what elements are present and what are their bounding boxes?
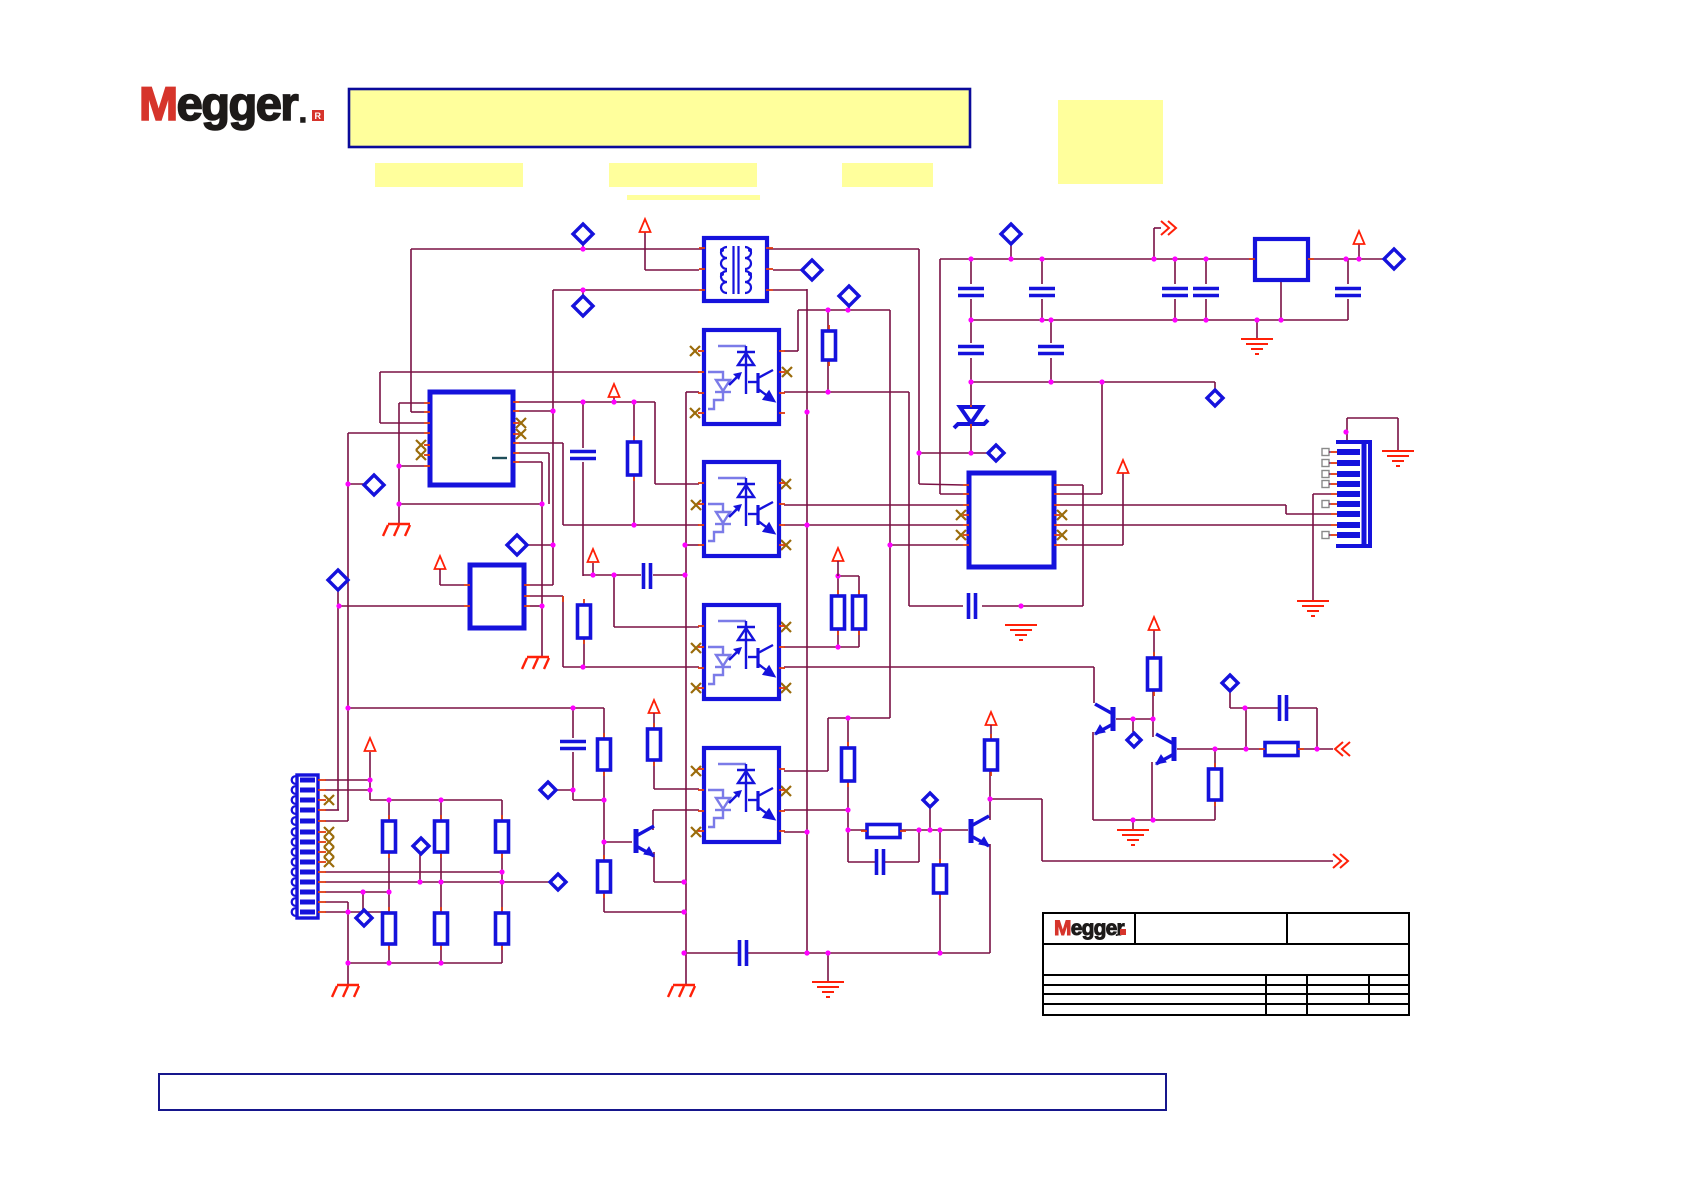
wire opto4 r3 (784, 809, 848, 811)
junction at 363,892 (360, 889, 365, 894)
port P9 (1384, 249, 1404, 269)
wire y718 (828, 717, 890, 719)
svg-text:.: . (299, 97, 307, 128)
ground slant 399 (383, 524, 410, 536)
port P13 (540, 782, 556, 798)
wire reg out (1308, 258, 1386, 260)
ground bar 1313 (1297, 601, 1329, 616)
power arrow Q5 (986, 712, 997, 725)
subtitle strip (627, 195, 760, 200)
wire Q3 emitter (653, 852, 655, 882)
junction at 1133,719 (1130, 716, 1135, 721)
junction at 1154,259 (1151, 256, 1156, 261)
wire IC3 r5 long (1060, 524, 1331, 526)
transistor Q2 (1156, 734, 1174, 764)
no-connect X at 696,832 (691, 827, 701, 837)
port P11 (1207, 390, 1223, 406)
svg-text:.: . (1115, 925, 1118, 939)
capacitor C5 (1162, 289, 1188, 296)
resistor R20 (867, 825, 900, 838)
junction at 348,963 (345, 960, 350, 965)
no-connect X at 786,791 (781, 786, 791, 796)
junction at 940,830 (937, 827, 942, 832)
capacitor C13 (877, 849, 884, 875)
no-connect X at 696,771 (691, 766, 701, 776)
wire rail 320 (971, 319, 1348, 321)
wire opto4 L2 (653, 760, 655, 789)
no-connect X at 329,800 (324, 795, 334, 805)
ground bar 1257 (1241, 339, 1273, 354)
wire diamond 583 top (582, 242, 584, 249)
junction at 940,953 (937, 950, 942, 955)
junction at 634,402 (631, 399, 636, 404)
ground bar 1398 (1382, 451, 1414, 466)
wire cap col 583 (582, 402, 584, 448)
wire IC3 r1 (1060, 484, 1083, 486)
junction at 1051,320 (1048, 317, 1053, 322)
junction at 919,830 (916, 827, 921, 832)
no-connect X at 521,423 (516, 418, 526, 428)
junction at 502,882 (499, 879, 504, 884)
wire rail 963 (348, 962, 502, 964)
transformer T1 (699, 238, 773, 301)
resistor R10 (388, 815, 390, 821)
junction at 838,647 (835, 644, 840, 649)
wire IC1 r7 (519, 461, 542, 463)
junction at 370,790 (367, 787, 372, 792)
wire J1 pin rows (325, 779, 370, 781)
junction at 828,953 (825, 950, 830, 955)
port P7 (839, 286, 859, 306)
wire y504 (399, 503, 542, 505)
wire IC2 L2 (339, 605, 464, 607)
junction at 583,402 (580, 399, 585, 404)
port P8 (1001, 224, 1021, 244)
junction at 634,525 (631, 522, 636, 527)
junction at 420,882 (417, 879, 422, 884)
wire IC1 r5 (519, 442, 563, 444)
power arrow 654 (649, 700, 660, 713)
junction at 1281,320 (1278, 317, 1283, 322)
capacitor C1 (570, 452, 596, 459)
title block (1043, 913, 1409, 1015)
wire x919 (918, 249, 920, 484)
junction at 583,249 (580, 246, 585, 251)
junction at 1153,820 (1150, 817, 1155, 822)
resistor R11 (440, 815, 442, 821)
wire transformer pin2 left (645, 269, 699, 271)
wire arrow J1 (369, 752, 371, 800)
no-connect X at 329,852 (324, 847, 334, 857)
wire y382 (971, 381, 1215, 383)
wire IC1 pin4 (348, 432, 424, 434)
wire cap col 1042 (1041, 259, 1043, 284)
resistor R4 (603, 733, 605, 739)
junction at 553,411 (550, 408, 555, 413)
note box top right (1058, 100, 1163, 184)
resistor R3 (583, 599, 585, 605)
junction at 339,606 (336, 603, 341, 608)
junction at 1246,749 (1243, 746, 1248, 751)
junction at 684,882 (681, 879, 686, 884)
no-connect X at 329,842 (324, 837, 334, 847)
wire cap col 1051 (1050, 320, 1052, 343)
power arrow IC3 (1118, 460, 1129, 473)
subtitle box 3 (842, 163, 933, 187)
junction at 1011,259 (1008, 256, 1013, 261)
wire IC1 r2 (519, 410, 553, 412)
resistor R6 (653, 723, 655, 729)
resistor R5 (603, 855, 605, 861)
wire y667 left (530, 595, 563, 597)
junction at 848,810 (845, 807, 850, 812)
wire top rail 259 (940, 258, 1255, 260)
wire arrow 614 (613, 397, 615, 402)
junction at 399,504 (396, 501, 401, 506)
wire transformer pin3 left (553, 289, 699, 291)
wire opto2 out 525 to IC3 (784, 524, 963, 526)
transistor Q3 (636, 826, 654, 856)
junction at 593,575 (590, 572, 595, 577)
wire Q5 collector (989, 770, 991, 820)
wire diamond 364 (362, 892, 364, 910)
wire IC3 p7 from bus (890, 544, 963, 546)
wire y953 row (686, 952, 739, 954)
wire opto4 r4 (784, 831, 807, 833)
wire IC2 L1 (440, 584, 464, 586)
wire y575 node (583, 574, 641, 576)
wire resistor col 441 (440, 800, 442, 821)
wire IC1 pin2 (410, 249, 412, 412)
wire port P3 stub (348, 483, 365, 485)
Megger logo (139, 77, 324, 130)
wire R1215 (1214, 749, 1216, 769)
junction at 828,392 (825, 389, 830, 394)
junction at 1215,749 (1212, 746, 1217, 751)
wire cap row 606 (909, 605, 963, 607)
power arrow 1154 (1149, 617, 1160, 630)
wire x848 chain (847, 718, 849, 748)
capacitor C9 (1038, 347, 1064, 354)
junction at 553,411 (550, 408, 555, 413)
wire y371 long (380, 371, 699, 373)
resistor R14 (440, 907, 442, 913)
wire arrow 1359 (1358, 244, 1360, 259)
wire arrow 1154 (1153, 630, 1155, 658)
wire y453 diamond (919, 452, 987, 454)
wire IC3 r3 long (1060, 504, 1286, 506)
no-connect X at 695,413 (690, 408, 700, 418)
ground bar 1133 (1117, 830, 1149, 845)
junction at 573,708 (570, 705, 575, 710)
wire port P5 to bus (526, 544, 553, 546)
sheet port chev left 749 (1335, 742, 1350, 756)
port P4 (328, 570, 348, 590)
no-connect X at 329,862 (324, 857, 334, 867)
IC U1 mark (492, 457, 507, 459)
connector J2 bypass squares (1322, 449, 1329, 456)
power arrow reg (1354, 231, 1365, 244)
wire opto2 out 505 to IC3 (784, 504, 963, 506)
port P18 (1127, 733, 1141, 747)
opto-isolator U4 (704, 605, 779, 699)
junction at 542,606 (539, 603, 544, 608)
wire cap col 971 (970, 259, 972, 284)
junction at 389,800 (386, 797, 391, 802)
wire Q3 base (604, 841, 632, 843)
junction at 1346,259 (1343, 256, 1348, 261)
wire resistor pair top (838, 575, 859, 577)
wire out to chev 861 (990, 798, 1042, 800)
junction at 1051,382 (1048, 379, 1053, 384)
resistor R18 (990, 734, 992, 740)
opto pin stubs (698, 350, 704, 352)
junction at 389,963 (386, 960, 391, 965)
junction at 553,545 (550, 542, 555, 547)
capacitor C7 (1335, 289, 1361, 296)
junction at 807,525 (804, 522, 809, 527)
resistor R7 (837, 590, 839, 596)
junction at 1206,259 (1203, 256, 1208, 261)
wire opto4 r1 (784, 770, 828, 772)
port P17 (923, 793, 937, 807)
port P15 (413, 838, 429, 854)
wire y667 right to Q1 (784, 666, 1094, 668)
power arrow J1 (365, 738, 376, 751)
wire diamond 1011 (1010, 241, 1012, 259)
wire resistor940 (939, 830, 941, 865)
svg-text:R: R (315, 111, 322, 121)
wire transformer pin2 right to port (773, 269, 803, 271)
junction at 614,575 (611, 572, 616, 577)
opto-isolator U5 (704, 748, 779, 842)
no-connect X at 696,648 (691, 643, 701, 653)
ground bar 828 (812, 982, 844, 997)
wire IC3 r7 to arrow (1060, 544, 1123, 546)
wire cap col 1206 (1205, 259, 1207, 284)
voltage regulator U8 (1255, 239, 1308, 280)
wire opto1 r3 row392 (784, 391, 909, 393)
port P6 (802, 260, 822, 280)
wire IC2 r1 (530, 584, 553, 586)
capacitor C12 (1280, 695, 1287, 721)
IC U1 (430, 392, 513, 485)
junction at 807,953 (804, 950, 809, 955)
zener diode D1 (954, 407, 988, 428)
power arrow IC2 (435, 556, 446, 569)
no-connect X at 786,545 (781, 540, 791, 550)
ground bar 1021 (1005, 625, 1037, 640)
port P2 (573, 296, 593, 316)
junction at 930,830 (927, 827, 932, 832)
junction at 1359,259 (1356, 256, 1361, 261)
junction at 919,453 (916, 450, 921, 455)
junction at 838,576 (835, 573, 840, 578)
no-connect X at 786,484 (781, 479, 791, 489)
junction at 807,412 (804, 409, 809, 414)
junction at 348,708 (345, 705, 350, 710)
no-connect X at 329,832 (324, 827, 334, 837)
wire conn J2 top (1346, 418, 1348, 442)
connector J1 (292, 775, 326, 918)
power arrow resistor pair (833, 548, 844, 561)
port P10 (988, 445, 1004, 461)
wire IC1 pin3 (380, 422, 424, 424)
wire gnd stub 828 (827, 953, 829, 982)
wire rail 800 (370, 799, 502, 801)
port P16 (356, 910, 372, 926)
svg-text:Megger: Megger (139, 77, 298, 130)
junction at 1317,749 (1314, 746, 1319, 751)
bottom note rectangle (159, 1074, 1166, 1110)
capacitor C8 (958, 347, 984, 354)
junction at 1206,320 (1203, 317, 1208, 322)
wire IC1 r6 (519, 452, 549, 454)
wire cap col 1348 (1347, 259, 1349, 284)
wire y830 base row (848, 829, 867, 831)
sheet port chev right top (1161, 221, 1176, 235)
junction at 1042,320 (1039, 317, 1044, 322)
wire chev top (1153, 228, 1155, 259)
wire diamond 583 mid (582, 290, 584, 298)
junction at 685,575 (682, 572, 687, 577)
junction at 1175,259 (1172, 256, 1177, 261)
junction at 348,912 (345, 909, 350, 914)
junction at 848,718 (845, 715, 850, 720)
wire opto2 L4 (686, 544, 699, 546)
junction at 441,882 (438, 879, 443, 884)
IC U6 stubs (464, 584, 470, 586)
port P5 (507, 535, 527, 555)
no-connect X at 1062,535 (1057, 530, 1067, 540)
wire opto3 L1 (613, 575, 615, 627)
wire IC2 r3 (530, 605, 542, 607)
wire y708 (348, 707, 604, 709)
junction at 971,453 (968, 450, 973, 455)
node IC1 output row 402 (519, 401, 655, 403)
IC U7 (969, 473, 1054, 567)
junction at 807,832 (804, 829, 809, 834)
svg-text:Megger: Megger (1054, 917, 1125, 940)
sheet port chev right 861 (1333, 854, 1348, 868)
IC U6 (470, 565, 524, 628)
no-connect X at 1062,515 (1057, 510, 1067, 520)
resistor R8 (858, 590, 860, 596)
port P14 (550, 874, 566, 890)
ground slant 542 (522, 657, 549, 669)
junction at 1257,320 (1254, 317, 1259, 322)
wire x604 chain (603, 708, 605, 739)
wire arrow 593 (592, 563, 594, 575)
subtitle box 2 (609, 163, 757, 187)
wire transformer right pin3 to bus (773, 289, 807, 291)
capacitor C2 (560, 742, 586, 749)
capacitor C14 (969, 593, 976, 619)
wire Q1 emitter (1092, 732, 1094, 820)
port P1 (573, 224, 593, 244)
wire cap col 1175 (1174, 259, 1176, 284)
no-connect X at 695,351 (690, 346, 700, 356)
no-connect X at 786,627 (781, 622, 791, 632)
junction at 848,830 (845, 827, 850, 832)
wire x686 long (685, 392, 687, 985)
wire net VCC top rail (411, 248, 705, 250)
wire resistor col 502 (501, 800, 503, 821)
resistor R2 (828, 325, 830, 331)
wire resistor col 389 (388, 800, 390, 821)
capacitor C3 (958, 289, 984, 296)
no-connect X at 421,445 (416, 440, 426, 450)
title banner (349, 89, 970, 147)
opto-isolator U2 (704, 330, 779, 424)
wire diamond 849,296 (848, 303, 850, 310)
junction at 971,320 (968, 317, 973, 322)
connector J2 (1331, 442, 1370, 546)
subtitle box 1 (375, 163, 523, 187)
junction at 604,842 (601, 839, 606, 844)
wire Q5 emitter (989, 844, 991, 953)
junction at 684,953 (681, 950, 686, 955)
junction at 990,799 (987, 796, 992, 801)
wire Q1 base net (1116, 718, 1154, 720)
junction at 583,290 (580, 287, 585, 292)
no-connect X at 521,434 (516, 429, 526, 439)
opto-isolator U3 (704, 462, 779, 556)
junction at 573,790 (570, 787, 575, 792)
port P12 (1222, 675, 1238, 691)
wire x573 chain (572, 708, 574, 738)
junction at 1153,719 (1150, 716, 1155, 721)
junction at 399,466 (396, 463, 401, 468)
wire resistor col 634 (633, 402, 635, 442)
wire arrow 645 (644, 232, 646, 270)
junction at 1245,708 (1242, 705, 1247, 710)
resistor R19 (939, 859, 941, 865)
capacitor C4 (1029, 289, 1055, 296)
resistor R1 (633, 436, 635, 442)
power arrow 614 (609, 384, 620, 397)
no-connect X at 421,455 (416, 450, 426, 460)
junction at 502,872 (499, 869, 504, 874)
wire conn J2 pin 494 (1313, 493, 1331, 495)
power arrow VCC transformer (640, 219, 651, 232)
no-connect X at 696,505 (691, 500, 701, 510)
resistor R16 (1153, 652, 1155, 658)
IC U7 stubs (963, 484, 969, 486)
wire resistor829 taps (827, 310, 829, 331)
resistor R13 (388, 907, 390, 913)
wire opto3 r2 (784, 646, 859, 648)
junction at 848,310 (845, 307, 850, 312)
junction at 1042,259 (1039, 256, 1044, 261)
junction at 542,504 (539, 501, 544, 506)
wire reg gnd (1280, 280, 1282, 320)
wire diamond 421 (419, 853, 421, 882)
junction at 1133,820 (1130, 817, 1135, 822)
no-connect X at 787,372 (782, 367, 792, 377)
capacitor C10 (644, 563, 651, 589)
no-connect X at 786,688 (781, 683, 791, 693)
junction at 685,545 (682, 542, 687, 547)
junction at 441,800 (438, 797, 443, 802)
junction at 828,310 (825, 307, 830, 312)
wire y310 node (798, 309, 890, 311)
wire IC1 pin1 (399, 402, 424, 404)
wire cap row 708 (1229, 690, 1231, 708)
transistor Q1 (1095, 704, 1113, 734)
junction at 1175,320 (1172, 317, 1177, 322)
wire rail 820 (1093, 819, 1215, 821)
